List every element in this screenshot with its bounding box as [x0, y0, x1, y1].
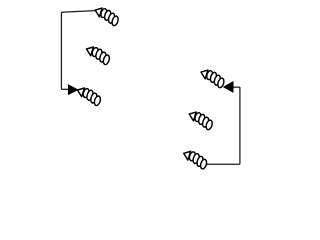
- coil R1 top: [199, 66, 228, 90]
- wire right bottom: [207, 163, 240, 165]
- coil L3 bottom: [75, 84, 104, 108]
- coil L2 middle: [84, 43, 113, 67]
- coil R3 bottom: [181, 147, 210, 171]
- coil R2 middle: [187, 108, 216, 132]
- arrow left: [68, 85, 78, 95]
- wire right stub: [233, 86, 240, 88]
- coil L1 top: [93, 4, 122, 28]
- wire left bottom: [61, 88, 68, 90]
- wire right vertical: [239, 87, 241, 164]
- wire left top: [61, 11, 95, 13]
- arrow right: [223, 82, 233, 93]
- wire left vertical: [60, 12, 62, 89]
